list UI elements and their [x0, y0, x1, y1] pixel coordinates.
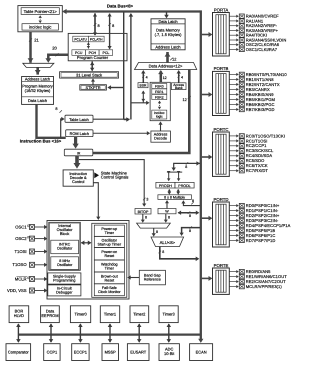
pin: RE0/RD/AN5	[229, 269, 271, 274]
pin: MCLR/VPP/RE3(1)	[229, 284, 282, 289]
wire: data bus branch into PORTA	[202, 32, 213, 37]
block: Watchdog Timer	[94, 260, 124, 272]
svg-text:PCLATU: PCLATU	[74, 37, 87, 41]
wire: oscillator block to resets block double arrow	[81, 241, 92, 246]
svg-text:(16/32 Kbytes): (16/32 Kbytes)	[25, 88, 51, 93]
svg-text:RD7/PSP7/P1D: RD7/PSP7/P1D	[246, 238, 276, 243]
svg-text:Table Pointer<21>: Table Pointer<21>	[24, 9, 58, 14]
wire: Data Bus horizontal run, arrow into Table Pointer	[62, 9, 200, 14]
svg-text:EEPROM: EEPROM	[41, 313, 58, 318]
svg-text:Instruction Bus <16>: Instruction Bus <16>	[20, 139, 62, 144]
svg-text:Programming: Programming	[53, 279, 75, 283]
svg-text:20: 20	[52, 46, 57, 51]
svg-text:Program Counter: Program Counter	[77, 55, 109, 60]
wire: program counter to 31 level stack double arrow	[90, 61, 94, 71]
svg-text:PORTB: PORTB	[214, 66, 229, 71]
svg-text:Address Latch: Address Latch	[25, 76, 50, 81]
svg-text:RC7/RX/DT: RC7/RX/DT	[246, 168, 269, 173]
wire: data bus to PCL, 8 bits	[108, 13, 115, 49]
block: FSR0 FSR1 FSR2 registers with inc/dec logic	[150, 82, 170, 120]
block: Timer1 peripheral	[100, 306, 119, 323]
mux: program memory address multiplexer (trapezoid)	[23, 63, 54, 67]
port: PORTD label	[213, 197, 228, 202]
wire: W down to ALU input mux, 8 bits	[164, 214, 170, 223]
wire: data bus branch down to STKPTR and table latch junction	[107, 13, 129, 122]
svg-text:Timer2: Timer2	[133, 312, 145, 317]
pin: RD5/PSP5/P1B	[229, 228, 275, 233]
svg-text:4: 4	[181, 76, 183, 80]
svg-text:31 Level Stack: 31 Level Stack	[76, 73, 102, 78]
svg-text:logic: logic	[156, 114, 163, 118]
svg-text:21: 21	[34, 37, 39, 42]
block: BSR register	[138, 83, 148, 88]
svg-text:RB7/KBI3/PGD: RB7/KBI3/PGD	[246, 107, 275, 112]
wire: data bus down into Data Latch of data memory	[164, 13, 169, 19]
wire: BSR to data address mux, 4 bits	[141, 70, 147, 83]
bus: Data Bus<8> label	[107, 3, 134, 8]
svg-text:FSR1: FSR1	[155, 90, 164, 94]
wire: instruction decode down to timing generation block	[93, 183, 100, 220]
wire: instruction bus branch up into Table Latch, 8 bits	[55, 107, 64, 138]
svg-text:8: 8	[189, 214, 191, 218]
port: PORTB label	[214, 66, 229, 71]
block: Oscillator Start-up Timer	[94, 237, 124, 248]
svg-text:8: 8	[162, 250, 164, 254]
svg-text:12: 12	[172, 58, 176, 62]
svg-text:OSC2: OSC2	[15, 236, 27, 241]
svg-text:Table Latch: Table Latch	[69, 118, 89, 122]
svg-text:Clock Monitor: Clock Monitor	[98, 290, 121, 294]
wire: mux output down into ALU, 8 bits	[152, 228, 158, 236]
wire: data bus branch into PORTD	[202, 216, 213, 221]
pin: RE1/WR/AN6/C1OUT	[229, 274, 287, 279]
pin: RD6/PSP6/P1C	[229, 233, 275, 238]
block: Table Latch	[65, 115, 93, 122]
svg-text:BITOP: BITOP	[138, 210, 149, 214]
port: PORTA label	[214, 7, 229, 12]
svg-text:BSR: BSR	[140, 84, 147, 88]
wire: IR literal 12-bit path up to data address mux (thick)	[93, 70, 191, 154]
wire: W register up into multiplier	[165, 200, 169, 208]
svg-text:8: 8	[55, 107, 57, 111]
wire: STKPTR up arrow to stack	[91, 78, 95, 84]
svg-text:inc/dec logic: inc/dec logic	[29, 25, 51, 30]
block: Table Pointer / inc-dec logic container	[18, 6, 62, 32]
svg-text:Data Latch: Data Latch	[158, 19, 177, 24]
svg-text:12: 12	[163, 76, 167, 80]
block: W working register	[158, 209, 176, 214]
svg-text:Block: Block	[60, 232, 69, 236]
block: ROM Latch	[66, 130, 93, 137]
svg-text:4: 4	[146, 76, 148, 80]
port: PORTB driver box	[213, 71, 230, 115]
pin: OSC1(3) input pad	[15, 224, 47, 229]
svg-text:Reset: Reset	[104, 254, 114, 258]
pin: VDD, VSS input pad	[7, 288, 47, 293]
wire: dotted double arrow inside table pointer block	[39, 15, 42, 23]
svg-text:Bank: Bank	[175, 86, 183, 90]
wire: peripheral data bus horizontal run	[18, 333, 200, 335]
svg-text:OSC1: OSC1	[15, 224, 27, 229]
svg-text:Data Address<12>: Data Address<12>	[149, 63, 183, 68]
wire: BITOP down to ALU input mux, 8 bits	[141, 214, 147, 223]
wire: data bus branch into PORTC	[202, 155, 213, 160]
pin: MCLR(1) input pad	[15, 276, 48, 281]
svg-text:PRODL: PRODL	[178, 184, 190, 188]
svg-text:PORTC: PORTC	[213, 127, 228, 132]
svg-text:Decode: Decode	[154, 137, 167, 141]
port: PORTC label	[213, 127, 228, 132]
pin: OSC2(3) input pad	[15, 236, 47, 241]
wire: band gap reference to brown-out reset	[127, 275, 139, 279]
block: ALU<8> (trapezoid)	[151, 237, 184, 247]
svg-text:ALU<8>: ALU<8>	[160, 240, 176, 245]
svg-text:IR: IR	[77, 151, 81, 155]
svg-text:Control Signals: Control Signals	[101, 175, 129, 180]
pin: RB4/KBI0/AN9	[229, 92, 274, 97]
wire: mux output to program memory Address Latch	[35, 67, 41, 74]
svg-text:12: 12	[183, 98, 187, 102]
wire: data bus to PRODH PRODL transfer bar	[167, 161, 200, 181]
wire: peripheral bus double arrow connector	[16, 323, 21, 342]
wire: data bus to PCLATU/PCLATH, 8 bits	[93, 13, 100, 36]
pin: RC4/SDI/SDA	[229, 153, 272, 158]
block: MSSP peripheral	[102, 344, 119, 361]
svg-text:Timer3: Timer3	[163, 312, 176, 317]
wire: main vertical data bus on right side down to ECAN	[198, 10, 203, 343]
svg-text:Oscillator: Oscillator	[57, 247, 73, 251]
pin: RC7/RX/DT	[229, 168, 268, 173]
block: Access Bank	[171, 83, 186, 90]
svg-text:ECAN: ECAN	[196, 350, 207, 355]
pin: RD0/PSP0/C1IN+	[229, 203, 280, 208]
svg-text:8: 8	[192, 199, 194, 203]
pin: RD3/PSP3/C2IN-	[229, 218, 279, 223]
block: Brown-out Reset	[94, 272, 124, 284]
wire: data bus into ALU right input, 8 bits	[180, 226, 200, 236]
pin: RC6/TX/CK	[229, 163, 268, 168]
wire: IR literal branch to BITOP mux area	[79, 160, 148, 207]
svg-text:Comparator: Comparator	[8, 350, 30, 355]
block: 8 x 8 Multiply	[158, 195, 192, 200]
pin: RB6/KBI2/PGC	[229, 102, 274, 107]
wire: instruction bus from program memory data latch (thick)	[20, 104, 66, 143]
pin: RA3/AN3/VREF+	[229, 28, 278, 33]
svg-text:HLVD: HLVD	[14, 313, 24, 318]
svg-text:Data Bus<8>: Data Bus<8>	[107, 3, 134, 8]
svg-text:ROM Latch: ROM Latch	[70, 132, 89, 136]
wire: data bus branch into PORTB	[202, 92, 213, 97]
wire: peripheral bus double arrow connector	[137, 323, 142, 342]
wire: table latch output up to data bus with branch to FSRs and BSR	[129, 13, 150, 120]
block: PRODH PRODL registers	[156, 182, 194, 188]
block: STKPTR register	[80, 85, 107, 91]
wire: W to data bus double arrow, 8 bits	[178, 211, 200, 219]
svg-text:8: 8	[156, 230, 158, 234]
svg-text:PCLATH: PCLATH	[90, 37, 103, 41]
wire: data bus into multiplier second input, 8 bits	[181, 199, 200, 205]
pin: RD1/PSP1/C1IN-	[229, 208, 279, 213]
pin: RE2/CS/AN7/C2OUT	[229, 279, 286, 284]
wire: data address mux output up to Address Latch, 12 bits	[165, 52, 177, 63]
svg-text:STKPTR: STKPTR	[86, 86, 101, 90]
pin: RD4/PSP4/ECCP1/P1A	[229, 223, 290, 228]
wire: address decode up to FSR inc/dec logic	[158, 121, 162, 131]
svg-text:Timer1: Timer1	[104, 312, 116, 317]
wire: 21-bit table pointer to program memory mux	[28, 32, 40, 63]
svg-text:MCLR: MCLR	[15, 276, 27, 281]
svg-text:8: 8	[185, 165, 187, 169]
svg-text:8: 8	[112, 24, 114, 28]
block: Fail-Safe Clock Monitor	[94, 284, 124, 296]
block: Timer3 peripheral	[159, 306, 178, 323]
svg-text:CCP1: CCP1	[47, 350, 58, 355]
wire: ALU result to data bus, 8 bits	[159, 247, 200, 262]
svg-text:8: 8	[168, 216, 170, 220]
svg-text:Reference: Reference	[144, 278, 161, 282]
pin: RB7/KBI3/PGD	[229, 107, 274, 112]
pin: RA2/AN2/VREF-	[229, 23, 277, 28]
block: Data EEPROM peripheral	[41, 306, 60, 323]
wire: FSR bank to data address mux, 12 bits	[158, 70, 167, 82]
svg-text:Debugger: Debugger	[56, 291, 73, 295]
svg-text:T1OSO: T1OSO	[12, 262, 27, 267]
wire: IR down to instruction decode (thick arrow)	[74, 156, 81, 169]
wire: 20-bit program counter to program memory mux	[45, 46, 68, 63]
pin: RB2/INT2/CANTX	[229, 82, 280, 87]
block: EUSART peripheral	[127, 344, 149, 361]
block: Single-Supply Programming	[48, 273, 81, 284]
block: Timer2 peripheral	[130, 306, 149, 323]
block: Timer0 peripheral	[70, 306, 90, 323]
svg-text:VDD, VSS: VDD, VSS	[7, 288, 27, 293]
pin: RA1/AN1	[229, 18, 264, 23]
block: ECCP1 peripheral	[72, 344, 89, 361]
port: PORTC driver box	[213, 132, 230, 176]
wire: peripheral bus double arrow connector	[49, 323, 54, 342]
svg-text:Reset: Reset	[104, 278, 114, 282]
pin: T1OSI input pad	[14, 249, 47, 254]
wire: peripheral bus double arrow connector	[108, 323, 113, 342]
block: Program Counter with PCLATU PCLATH PCU PCH PCL	[68, 33, 127, 60]
wire: Access Bank to data address mux, 4 bits	[177, 70, 183, 83]
mux: ALU input multiplexer (trapezoid)	[137, 223, 171, 228]
block: Instruction Decode and Control	[63, 170, 93, 186]
svg-text:Data Latch: Data Latch	[28, 98, 47, 103]
block: 31 Level Stack	[60, 72, 119, 78]
svg-text:Address Latch: Address Latch	[155, 45, 180, 50]
block: Band Gap Reference	[139, 270, 165, 285]
wire: peripheral bus double arrow connector	[78, 323, 83, 342]
svg-text:W: W	[165, 210, 169, 214]
pin: RA0/AN0/CVREF	[229, 14, 279, 19]
svg-text:Timer0: Timer0	[75, 312, 88, 317]
block: Comparator peripheral	[6, 344, 31, 361]
wire: data bus branch into PORTE	[202, 276, 213, 281]
block: Power-on Reset	[94, 248, 124, 260]
pin: RD2/PSP2/C2IN+	[229, 213, 280, 218]
pin: RC0/T1OSO/T13CKI	[229, 133, 285, 138]
svg-text:8: 8	[145, 216, 147, 220]
block: Program Memory with Address Latch and Data Latch	[22, 76, 54, 104]
block: BITOP	[135, 209, 151, 215]
svg-text:FSR2: FSR2	[155, 96, 164, 100]
block: In-Circuit Debugger	[48, 285, 81, 296]
svg-text:10-Bit: 10-Bit	[164, 351, 175, 356]
mux: Data Address<12> multiplexer (trapezoid)	[135, 63, 197, 70]
svg-text:Timer: Timer	[105, 266, 115, 270]
pin: RB0/INT0/FLT0/AN10	[229, 72, 287, 77]
pin: RA5/AN4/SS/HLVDIN	[229, 37, 286, 42]
port: PORTA driver box	[213, 13, 230, 57]
block: ECAN peripheral	[190, 344, 213, 361]
block: CCP1 peripheral	[44, 344, 60, 361]
wire: table latch to vertical riser	[93, 118, 130, 120]
block: resets and timers stack container	[92, 223, 127, 297]
block: Data Memory with Data Latch and Address Latch	[151, 19, 185, 50]
svg-text:Start-up Timer: Start-up Timer	[98, 242, 122, 246]
wire: PCLATH to PCH internal arrow	[87, 42, 90, 48]
pin: RC3/SCK/SCL	[229, 148, 274, 153]
svg-text:3: 3	[146, 198, 148, 202]
block: timing and reset outer container	[47, 221, 129, 300]
wire: peripheral bus double arrow connector	[167, 323, 172, 342]
svg-text:PORTA: PORTA	[214, 7, 229, 12]
block: BOR HLVD peripheral	[9, 306, 29, 323]
pin: RC2/CCP1	[229, 143, 267, 148]
svg-text:OSC1/CLKI/RA7: OSC1/CLKI/RA7	[246, 47, 278, 52]
label: State Machine Control Signals with arrow	[94, 170, 128, 179]
block: ADC 10-Bit peripheral	[159, 344, 179, 361]
pin: RD7/PSP7/P1D	[229, 238, 275, 243]
svg-text:T1OSI: T1OSI	[14, 249, 26, 254]
svg-text:MCLR/VPP/RE3(1): MCLR/VPP/RE3(1)	[246, 284, 283, 289]
pin: RC1/T1OSI	[229, 138, 267, 143]
wire: PRODH PRODL to 8x8 multiply double arrows	[168, 189, 180, 195]
svg-text:PRODH: PRODH	[159, 184, 172, 188]
svg-text:MSSP: MSSP	[105, 350, 117, 355]
block: Internal Oscillator Block	[49, 222, 81, 270]
wire: ROM latch down to IR (thick arrow)	[72, 137, 78, 149]
port: PORTE driver box	[213, 268, 230, 294]
svg-text:8: 8	[189, 229, 191, 233]
svg-text:(.7, 1.5 Kbytes): (.7, 1.5 Kbytes)	[155, 32, 182, 37]
svg-text:FSR0: FSR0	[155, 85, 164, 89]
svg-text:Control: Control	[72, 180, 84, 184]
svg-text:EUSART: EUSART	[130, 350, 147, 355]
block: Address Decode	[151, 131, 171, 142]
pin: OSC2/CLKO/RA6	[229, 42, 280, 47]
svg-text:PORTD: PORTD	[213, 197, 228, 202]
svg-text:Timer: Timer	[105, 231, 115, 235]
svg-text:8: 8	[98, 24, 100, 28]
pin: RC5/SDO	[229, 158, 264, 163]
svg-text:PORTE: PORTE	[214, 263, 229, 268]
pin: T1OSO input pad	[12, 262, 47, 267]
block: IR instruction register	[64, 149, 93, 156]
pin: RA4/T0CKI	[229, 33, 267, 38]
svg-text:ECCP1: ECCP1	[74, 350, 87, 355]
svg-text:Oscillator: Oscillator	[57, 263, 73, 267]
svg-text:8 x 8 Multiply: 8 x 8 Multiply	[164, 195, 185, 199]
pin: RB1/INT1/AN8	[229, 77, 274, 82]
port: PORTD driver box	[213, 202, 230, 247]
port: PORTE label	[214, 263, 229, 268]
wire: ROM latch output right into Address Decode	[93, 131, 150, 135]
block: Power-up Timer	[94, 225, 124, 236]
pin: OSC1/CLKI/RA7	[229, 47, 277, 52]
pin: RB3/CANRX	[229, 87, 270, 92]
pin: RB5/KBI1/PGM	[229, 97, 275, 102]
